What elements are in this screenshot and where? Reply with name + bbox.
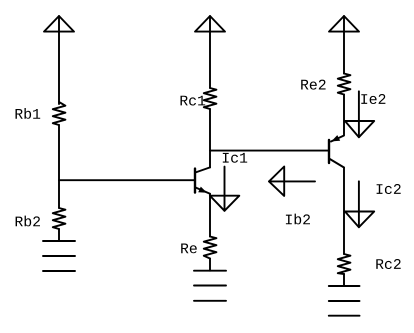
- wire: [343, 16, 345, 74]
- vcc symbol middle: [195, 16, 225, 32]
- wire node to Q1 base: [59, 179, 195, 181]
- label Rc1: [181, 96, 206, 106]
- ground left: [43, 241, 75, 271]
- wire: [58, 125, 60, 208]
- wire: [209, 16, 211, 88]
- ground middle: [194, 271, 226, 301]
- current arrow Ic2: [345, 181, 374, 227]
- label Rb1: [16, 108, 41, 119]
- label Ib2: [286, 214, 310, 225]
- wire emitter Q2: [331, 95, 344, 142]
- label Rb2: [16, 216, 40, 227]
- label Ic1: [223, 153, 247, 163]
- label Ic2: [377, 184, 401, 194]
- transistor Q2: [329, 135, 344, 167]
- label Re2: [301, 80, 325, 90]
- current arrow Ib2: [269, 167, 315, 196]
- resistor Rb1: [53, 102, 66, 125]
- current arrow Ic1: [210, 167, 239, 211]
- vcc symbol left: [44, 16, 74, 32]
- resistor Rc1: [204, 88, 217, 109]
- wire: [343, 274, 345, 286]
- label Rc2: [376, 259, 400, 269]
- wire: [58, 16, 60, 104]
- label Ie2: [361, 94, 385, 104]
- wire: [209, 259, 211, 271]
- wire: [58, 229, 60, 241]
- wire Q1 collector to Q2 base: [210, 150, 329, 152]
- resistor Re2: [338, 74, 351, 95]
- resistor Rc2: [338, 254, 351, 274]
- label Re: [181, 244, 197, 254]
- wire collector Q2: [343, 168, 345, 255]
- resistor Rb2: [53, 208, 66, 229]
- current arrow Ie2: [345, 91, 374, 137]
- wire collector Q1: [209, 109, 211, 167]
- resistor Re: [204, 237, 217, 259]
- vcc symbol right: [329, 16, 359, 32]
- wire emitter Q1: [209, 194, 211, 237]
- transistor Q1: [195, 167, 210, 193]
- ground right: [329, 286, 360, 316]
